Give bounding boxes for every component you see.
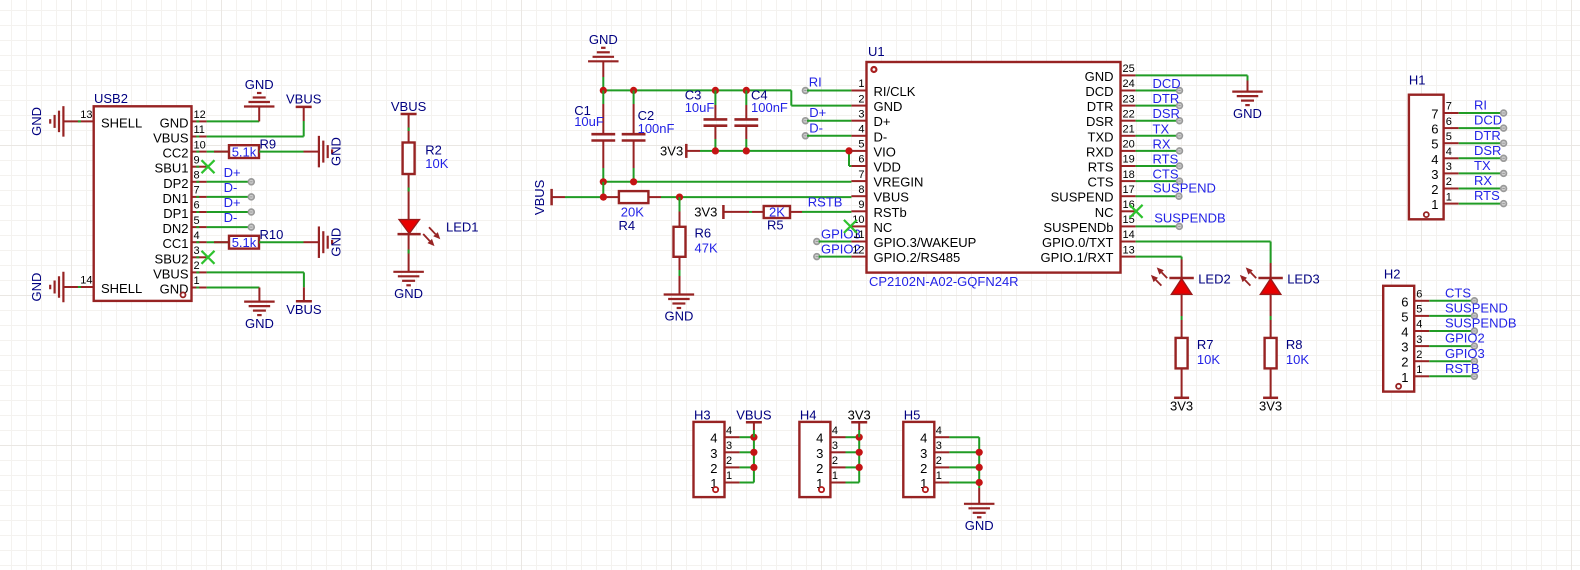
H1 pin 3 with net label TX xyxy=(1431,158,1506,182)
USB2 pin 13 SHELL xyxy=(64,109,143,131)
svg-text:9: 9 xyxy=(858,199,864,211)
connector H2 xyxy=(1383,266,1414,391)
svg-text:GND: GND xyxy=(664,309,693,324)
H5 pin 1 xyxy=(920,470,979,491)
wire pin1 GND xyxy=(207,288,260,302)
power flag VBUS above H3 xyxy=(736,407,772,437)
svg-text:GPIO2: GPIO2 xyxy=(1445,331,1485,346)
U1 pin 4 D- xyxy=(851,124,887,145)
power flag VBUS (bottom) xyxy=(286,287,322,317)
svg-text:1: 1 xyxy=(1446,191,1452,203)
U1 pin 6 VDD xyxy=(851,154,901,175)
svg-text:12: 12 xyxy=(852,244,864,256)
svg-text:GPIO.1/RXT: GPIO.1/RXT xyxy=(1041,250,1114,265)
USB2 pin-1 marker xyxy=(181,292,186,297)
svg-text:3V3: 3V3 xyxy=(660,144,683,159)
USB2 pin 7 DN1 xyxy=(162,185,206,206)
U1 pin 19 RTS xyxy=(1088,154,1136,175)
svg-text:4: 4 xyxy=(1446,146,1452,158)
svg-text:3: 3 xyxy=(858,108,864,120)
svg-text:13: 13 xyxy=(80,109,92,121)
svg-text:LED1: LED1 xyxy=(446,219,479,234)
power flag VBUS (top) xyxy=(286,92,322,137)
svg-text:RSTB: RSTB xyxy=(1445,361,1480,376)
H5 pin 4 xyxy=(920,425,979,446)
junction H5 pin1 xyxy=(976,479,983,486)
svg-text:12: 12 xyxy=(194,109,206,121)
svg-text:LED2: LED2 xyxy=(1198,271,1231,286)
svg-text:GND: GND xyxy=(1085,69,1114,84)
svg-text:1: 1 xyxy=(1416,364,1422,376)
wire LED2 to R7 xyxy=(1181,294,1183,338)
svg-text:R8: R8 xyxy=(1286,337,1303,352)
net label D- xyxy=(803,120,852,138)
wire pin 5 with net label D- xyxy=(207,210,255,230)
USB2 pin 2 VBUS xyxy=(153,260,207,281)
wire with net label DCD xyxy=(1136,76,1183,93)
power flag 3V3 (C3/C4 bus) xyxy=(660,144,715,159)
svg-text:3: 3 xyxy=(1401,340,1408,355)
svg-text:R9: R9 xyxy=(260,136,277,151)
wire pin 7 with net label D- xyxy=(207,180,255,200)
svg-text:11: 11 xyxy=(194,124,205,136)
svg-text:14: 14 xyxy=(80,275,92,287)
H4 pin 1 xyxy=(816,470,859,491)
svg-text:GND: GND xyxy=(394,286,423,301)
U1 pin-1 marker xyxy=(871,67,876,72)
USB2 pin 1 GND xyxy=(160,275,207,296)
H3 pin 3 xyxy=(710,440,754,461)
svg-text:D-: D- xyxy=(224,210,238,225)
svg-text:6: 6 xyxy=(1446,116,1452,128)
svg-text:H5: H5 xyxy=(904,407,921,422)
U1 pin 22 DSR xyxy=(1086,108,1136,129)
resistor R7 10K xyxy=(1176,337,1221,369)
wire R7 to 3V3 xyxy=(1181,368,1183,397)
svg-text:SHELL: SHELL xyxy=(101,116,142,131)
junction H4 pin2 xyxy=(856,464,863,471)
USB2 pin 12 GND xyxy=(160,109,207,130)
ground GND below USB2 xyxy=(244,302,275,331)
svg-text:19: 19 xyxy=(1123,154,1135,166)
svg-text:5: 5 xyxy=(1431,137,1438,152)
H2 pin 4 with net label SUSPENDB xyxy=(1401,316,1516,340)
wire with net label DSR xyxy=(1136,106,1183,123)
svg-text:3: 3 xyxy=(726,440,732,452)
svg-text:RXD: RXD xyxy=(1086,144,1113,159)
svg-text:DTR: DTR xyxy=(1153,91,1180,106)
svg-text:SUSPEND: SUSPEND xyxy=(1153,180,1216,195)
svg-text:TXD: TXD xyxy=(1088,129,1114,144)
U1 pin 1 RI/CLK xyxy=(851,78,915,99)
svg-text:R6: R6 xyxy=(695,225,712,240)
junction VREGIN at C2 xyxy=(630,178,637,185)
svg-text:6: 6 xyxy=(194,200,200,212)
wire R8 to 3V3 xyxy=(1270,368,1272,397)
wire H4 bus xyxy=(858,437,860,482)
svg-text:47K: 47K xyxy=(695,240,718,255)
svg-text:5: 5 xyxy=(1401,309,1408,324)
wire pin10 to R9 xyxy=(207,151,229,153)
wire 3V3 bus to U1 VIO/VDD xyxy=(715,151,851,166)
H1 pin 6 with net label DCD xyxy=(1431,113,1506,137)
svg-text:TX: TX xyxy=(1474,158,1491,173)
svg-text:4: 4 xyxy=(194,230,200,242)
svg-text:3: 3 xyxy=(1446,161,1452,173)
H2 pin 5 with net label SUSPEND xyxy=(1401,301,1508,325)
power flag 3V3 below R7 xyxy=(1170,398,1193,414)
svg-text:R10: R10 xyxy=(260,227,284,242)
svg-text:VBUS: VBUS xyxy=(532,179,547,215)
LED LED1 xyxy=(398,219,479,246)
svg-text:5: 5 xyxy=(194,215,200,227)
svg-text:D+: D+ xyxy=(809,105,826,120)
svg-text:1: 1 xyxy=(936,470,942,482)
USB2 pin 5 DN2 xyxy=(162,215,206,236)
svg-text:DCD: DCD xyxy=(1153,76,1181,91)
svg-text:D-: D- xyxy=(809,120,823,135)
svg-text:H4: H4 xyxy=(800,407,817,422)
svg-text:NC: NC xyxy=(874,220,893,235)
svg-text:VDD: VDD xyxy=(874,160,901,175)
H1 pin-1 marker xyxy=(1424,212,1429,217)
svg-text:GND: GND xyxy=(29,273,44,302)
svg-text:VBUS: VBUS xyxy=(153,131,189,146)
H3 pin 4 xyxy=(710,425,754,446)
svg-text:GND: GND xyxy=(589,32,618,47)
svg-text:6: 6 xyxy=(858,154,864,166)
USB2 pin 14 SHELL xyxy=(64,275,143,297)
svg-text:4: 4 xyxy=(858,124,864,136)
svg-text:7: 7 xyxy=(1431,107,1438,122)
junction H4 pin4 xyxy=(856,434,863,441)
svg-text:GND: GND xyxy=(160,115,189,130)
svg-text:RX: RX xyxy=(1474,173,1492,188)
svg-text:2: 2 xyxy=(194,260,200,272)
svg-text:RX: RX xyxy=(1153,136,1171,151)
svg-text:GPIO.3/WAKEUP: GPIO.3/WAKEUP xyxy=(874,235,977,250)
capacitor C4 100nF xyxy=(734,87,788,150)
ground GND above pin12 wire xyxy=(244,77,275,121)
svg-text:DN2: DN2 xyxy=(162,221,188,236)
svg-text:GPIO.0/TXT: GPIO.0/TXT xyxy=(1042,235,1114,250)
svg-text:3: 3 xyxy=(710,446,717,461)
svg-text:3: 3 xyxy=(194,245,200,257)
svg-text:DP2: DP2 xyxy=(163,176,188,191)
U1 pin 8 VBUS xyxy=(851,184,909,205)
H4 pin-1 marker xyxy=(819,487,824,492)
svg-text:VBUS: VBUS xyxy=(391,99,427,114)
U1 pin 3 D+ xyxy=(851,108,890,129)
svg-text:CTS: CTS xyxy=(1088,175,1114,190)
svg-text:3: 3 xyxy=(920,446,927,461)
resistor R6 47K xyxy=(674,197,718,294)
svg-text:3V3: 3V3 xyxy=(1259,398,1282,413)
junction on GND bus at C3 xyxy=(712,87,719,94)
connector H1 xyxy=(1409,73,1444,220)
svg-text:H2: H2 xyxy=(1384,266,1401,281)
U1 pin 16 NC xyxy=(1095,199,1136,220)
svg-text:VBUS: VBUS xyxy=(736,407,772,422)
svg-text:TX: TX xyxy=(1153,121,1170,136)
wire LED3 to R8 xyxy=(1270,294,1272,338)
svg-text:1: 1 xyxy=(194,275,200,287)
no-connect X pin 16 NC xyxy=(1130,205,1143,218)
svg-text:4: 4 xyxy=(726,425,732,437)
junction at R6 top xyxy=(676,194,683,201)
svg-text:GPIO.2/RS485: GPIO.2/RS485 xyxy=(874,250,961,265)
U1 pin 2 GND xyxy=(851,93,902,114)
resistor R2 10K xyxy=(403,143,449,175)
connector H5 xyxy=(903,407,934,497)
svg-text:3: 3 xyxy=(936,440,942,452)
power flag 3V3 below R8 xyxy=(1259,398,1282,414)
svg-text:SUSPENDB: SUSPENDB xyxy=(1445,316,1517,331)
H3 pin 2 xyxy=(710,455,754,476)
junction H3 pin3 xyxy=(750,449,757,456)
ground GND at R10 xyxy=(319,226,344,258)
svg-text:GND: GND xyxy=(874,99,903,114)
svg-text:RI/CLK: RI/CLK xyxy=(874,84,916,99)
H4 pin 4 xyxy=(816,425,859,446)
H2 pin-1 marker xyxy=(1396,384,1401,389)
wire with net label RX xyxy=(1136,136,1183,153)
svg-text:H1: H1 xyxy=(1409,73,1426,88)
ground GND at pin 14 xyxy=(29,272,64,303)
net label RI xyxy=(803,74,852,93)
junction on GND bus at C1 xyxy=(600,87,607,94)
svg-text:18: 18 xyxy=(1123,169,1135,181)
junction H5 pin2 xyxy=(976,464,983,471)
svg-text:1: 1 xyxy=(832,470,838,482)
H1 pin 1 with net label RTS xyxy=(1431,188,1506,212)
svg-text:2: 2 xyxy=(920,461,927,476)
USB2 pin 6 DP1 xyxy=(163,200,206,221)
svg-text:SUSPEND: SUSPEND xyxy=(1445,301,1508,316)
svg-text:RTS: RTS xyxy=(1474,188,1500,203)
resistor R4 20K xyxy=(619,191,649,233)
svg-text:6: 6 xyxy=(1431,122,1438,137)
svg-text:20: 20 xyxy=(1123,139,1135,151)
svg-text:5: 5 xyxy=(1446,131,1452,143)
svg-text:4: 4 xyxy=(920,431,927,446)
svg-text:17: 17 xyxy=(1123,184,1135,196)
wire U1 pin25 GND xyxy=(1136,75,1248,91)
LED LED2 xyxy=(1151,267,1231,294)
U1 pin 13 GPIO.1/RXT xyxy=(1041,244,1136,265)
H2 pin 1 with net label RSTB xyxy=(1401,361,1479,385)
svg-text:5.1k: 5.1k xyxy=(232,235,257,250)
capacitor C1 10uF xyxy=(574,90,615,181)
wire with net label SUSPENDB xyxy=(1136,211,1226,230)
svg-text:6: 6 xyxy=(1401,294,1408,309)
svg-text:DSR: DSR xyxy=(1153,106,1180,121)
svg-text:9: 9 xyxy=(194,154,200,166)
svg-text:3V3: 3V3 xyxy=(1170,398,1193,413)
svg-text:10uF: 10uF xyxy=(685,100,715,115)
svg-text:22: 22 xyxy=(1123,108,1135,120)
svg-text:10: 10 xyxy=(852,214,864,226)
svg-text:5.1k: 5.1k xyxy=(232,144,257,159)
svg-text:VBUS: VBUS xyxy=(286,302,322,317)
wire R2 to LED1 xyxy=(408,174,410,220)
wire pin2 VBUS xyxy=(207,272,304,287)
capacitor C2 100nF xyxy=(622,90,675,181)
svg-text:D-: D- xyxy=(224,180,238,195)
svg-text:CC2: CC2 xyxy=(162,146,188,161)
svg-text:GND: GND xyxy=(245,316,274,331)
svg-text:LED3: LED3 xyxy=(1287,271,1320,286)
wire LED1 to GND xyxy=(408,234,410,272)
svg-text:3: 3 xyxy=(816,446,823,461)
svg-text:GND: GND xyxy=(1233,106,1262,121)
H4 pin 2 xyxy=(816,455,859,476)
svg-text:GND: GND xyxy=(965,518,994,533)
H5 pin-1 marker xyxy=(923,487,928,492)
ground GND below LED1 xyxy=(393,272,424,301)
svg-text:R5: R5 xyxy=(767,218,784,233)
U1 pin 25 GND xyxy=(1085,63,1136,84)
svg-text:3V3: 3V3 xyxy=(694,204,717,219)
connector H4 xyxy=(799,407,830,497)
wire pin11 VBUS xyxy=(207,136,304,138)
U1 pin 11 GPIO.3/WAKEUP xyxy=(851,229,976,250)
wire VBUS to R4 xyxy=(565,182,619,197)
svg-text:8: 8 xyxy=(194,170,200,182)
svg-text:VBUS: VBUS xyxy=(153,266,189,281)
svg-text:2: 2 xyxy=(1416,349,1422,361)
svg-text:U1: U1 xyxy=(868,44,885,59)
svg-text:CC1: CC1 xyxy=(162,236,188,251)
svg-text:CTS: CTS xyxy=(1445,285,1471,300)
H1 pin 5 with net label DTR xyxy=(1431,128,1506,152)
H1 pin 7 with net label RI xyxy=(1431,98,1506,122)
USB2 pin 10 CC2 xyxy=(162,139,206,160)
power flag 3V3 (RSTb) xyxy=(694,204,763,219)
H2 pin 3 with net label GPIO2 xyxy=(1401,331,1484,355)
svg-text:RSTB: RSTB xyxy=(808,195,843,210)
wire pin12 GND xyxy=(207,120,260,122)
H4 pin 3 xyxy=(816,440,859,461)
svg-text:10K: 10K xyxy=(1286,352,1309,367)
junction H5 pin3 xyxy=(976,449,983,456)
wire U1 pin14 to LED3 xyxy=(1136,242,1271,279)
svg-text:4: 4 xyxy=(936,425,942,437)
svg-text:13: 13 xyxy=(1123,244,1135,256)
H1 pin 2 with net label RX xyxy=(1431,173,1506,197)
svg-text:7: 7 xyxy=(1446,101,1452,113)
resistor R8 10K xyxy=(1265,337,1310,369)
LED LED3 xyxy=(1240,267,1320,294)
H5 pin 3 xyxy=(920,440,979,461)
net label GPIO3 xyxy=(814,227,861,245)
junction 3V3 at C4 xyxy=(743,147,750,154)
svg-text:24: 24 xyxy=(1123,78,1135,90)
ground GND below H5 xyxy=(964,504,995,533)
U1 pin 12 GPIO.2/RS485 xyxy=(851,244,960,265)
wire pin4 to R10 xyxy=(207,241,229,243)
power flag VBUS above R2 xyxy=(391,99,427,143)
wire pin 8 with net label D+ xyxy=(207,165,255,185)
wire GND bus to U1 pin 2 xyxy=(603,90,851,105)
svg-text:3: 3 xyxy=(1431,167,1438,182)
USB2 pin 3 SBU2 xyxy=(155,245,207,266)
svg-text:21: 21 xyxy=(1123,124,1135,136)
USB2 pin 8 DP2 xyxy=(163,170,206,191)
svg-text:GND: GND xyxy=(329,228,344,257)
svg-text:2: 2 xyxy=(1431,182,1438,197)
svg-text:10: 10 xyxy=(194,139,206,151)
junction on GND bus at C4 xyxy=(743,87,750,94)
wire pin 6 with net label D+ xyxy=(207,195,255,215)
svg-text:CP2102N-A02-GQFN24R: CP2102N-A02-GQFN24R xyxy=(869,274,1019,289)
svg-text:4: 4 xyxy=(816,431,823,446)
USB2 pin 4 CC1 xyxy=(162,230,206,251)
svg-text:SBU2: SBU2 xyxy=(155,251,189,266)
svg-text:DTR: DTR xyxy=(1474,128,1501,143)
svg-text:3: 3 xyxy=(832,440,838,452)
U1 pin 15 SUSPENDb xyxy=(1043,214,1135,235)
svg-text:USB2: USB2 xyxy=(94,91,128,106)
wire R9 to GND xyxy=(259,151,319,153)
svg-text:2: 2 xyxy=(1401,355,1408,370)
svg-text:DP1: DP1 xyxy=(163,206,188,221)
wire U1 pin13 to LED2 xyxy=(1136,257,1182,278)
ground GND right of U1 xyxy=(1232,92,1263,121)
svg-text:2: 2 xyxy=(816,461,823,476)
svg-text:SUSPEND: SUSPEND xyxy=(1051,190,1114,205)
U1 pin 10 NC xyxy=(851,214,892,235)
U1 pin 18 CTS xyxy=(1088,169,1136,190)
svg-text:6: 6 xyxy=(1416,289,1422,301)
junction VBUS at C1 branch xyxy=(600,194,607,201)
svg-text:4: 4 xyxy=(1416,319,1422,331)
svg-text:5: 5 xyxy=(1416,304,1422,316)
connector USB2 xyxy=(94,91,192,301)
svg-text:VIO: VIO xyxy=(874,144,896,159)
svg-text:2: 2 xyxy=(1446,176,1452,188)
svg-text:1: 1 xyxy=(858,78,864,90)
wire with net label CTS xyxy=(1136,167,1183,184)
USB2 pin 9 SBU1 xyxy=(155,154,207,175)
svg-text:R4: R4 xyxy=(619,218,636,233)
resistor R9 5.1k xyxy=(229,136,276,159)
H3 pin-1 marker xyxy=(713,487,718,492)
no-connect X pin 10 NC xyxy=(844,220,857,233)
wire VREGIN bus xyxy=(603,181,851,183)
svg-text:VREGIN: VREGIN xyxy=(874,175,924,190)
U1 pin 20 RXD xyxy=(1086,139,1136,160)
H1 pin 4 with net label DSR xyxy=(1431,143,1506,167)
svg-text:2: 2 xyxy=(726,455,732,467)
U1 pin 5 VIO xyxy=(851,139,896,160)
svg-text:SBU1: SBU1 xyxy=(155,161,189,176)
svg-text:100nF: 100nF xyxy=(751,100,788,115)
svg-text:VBUS: VBUS xyxy=(874,190,910,205)
H2 pin 2 with net label GPIO3 xyxy=(1401,346,1484,370)
svg-text:GND: GND xyxy=(329,137,344,166)
ground GND at R9 xyxy=(319,136,344,168)
ground GND below R6 xyxy=(664,295,695,324)
U1 pin 21 TXD xyxy=(1088,124,1136,145)
net label GPIO2 xyxy=(814,242,861,260)
svg-text:4: 4 xyxy=(1401,325,1408,340)
svg-text:RSTb: RSTb xyxy=(874,205,907,220)
svg-text:DCD: DCD xyxy=(1085,84,1113,99)
junction VREGIN at C1 xyxy=(600,178,607,185)
power flag 3V3 above H4 xyxy=(848,407,871,437)
svg-text:GPIO3: GPIO3 xyxy=(1445,346,1485,361)
